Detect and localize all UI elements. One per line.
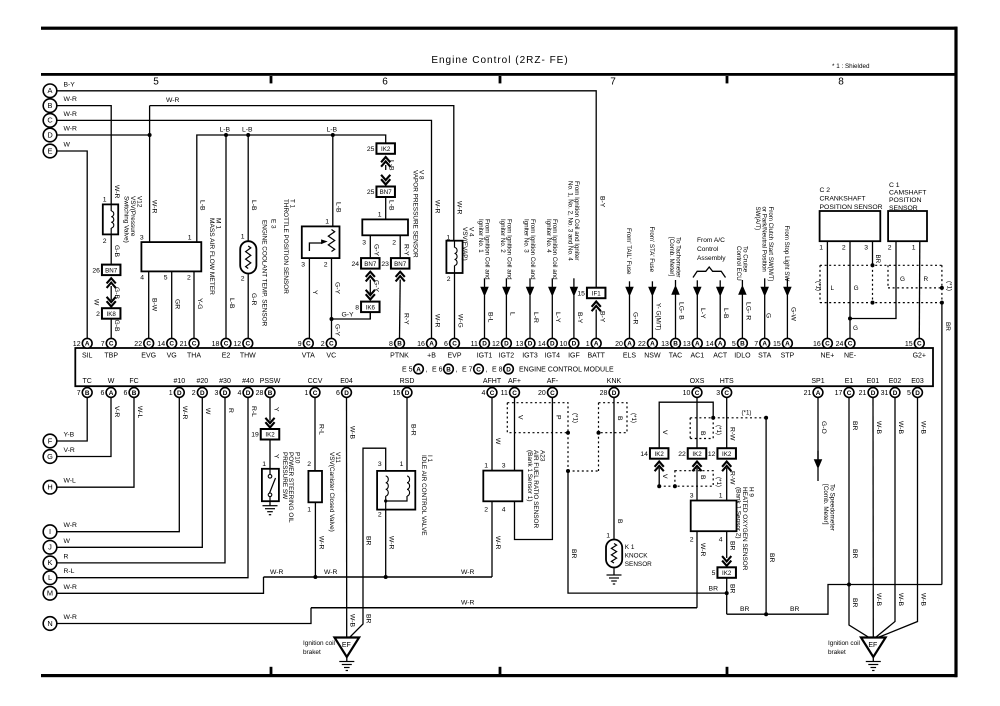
knock sensor K1 [606,540,622,568]
svg-text:G-Y: G-Y [333,324,340,337]
shield dashed line (*1) to BR drain right [690,417,766,419]
wire W row E to SIL [57,151,87,339]
svg-text:B: B [132,390,137,397]
svg-text:(*1): (*1) [630,413,637,423]
svg-text:(Bank 1 Sensor 2): (Bank 1 Sensor 2) [735,487,742,539]
svg-text:,: , [486,367,488,374]
svg-text:CRANKSHAFT: CRANKSHAFT [820,196,866,203]
svg-text:VAPOR PRESSURE SENSOR: VAPOR PRESSURE SENSOR [411,170,418,258]
svg-text:NE-: NE- [844,353,857,360]
svg-text:W-R: W-R [64,126,78,133]
throttle position sensor T1 [332,135,334,226]
svg-text:B: B [268,390,273,397]
svg-text:(*1): (*1) [946,281,953,291]
svg-text:L-B: L-B [327,127,338,134]
svg-text:#20: #20 [196,378,208,385]
svg-text:28: 28 [600,390,608,397]
svg-text:IDLO: IDLO [734,353,751,360]
svg-text:25: 25 [367,146,375,153]
svg-text:C: C [313,390,318,397]
chevrons into IK6 8 [366,294,375,299]
chevrons under BN7 26 [107,278,116,283]
svg-text:L-B: L-B [388,200,395,211]
svg-text:10: 10 [560,341,568,348]
svg-text:G2+: G2+ [913,353,926,360]
svg-text:3: 3 [301,262,305,269]
svg-text:V-R: V-R [64,447,75,454]
svg-text:Switching Valve): Switching Valve) [123,196,130,243]
wire BR H9 pin4 to IK2 5 [726,531,728,558]
svg-text:THROTTLE POSITION SENSOR: THROTTLE POSITION SENSOR [282,199,289,294]
svg-text:VSV(Canister Closed Valve): VSV(Canister Closed Valve) [328,452,335,532]
svg-text:IDLE AIR CONTROL VALVE: IDLE AIR CONTROL VALVE [420,455,427,536]
svg-text:R: R [227,408,234,413]
svg-text:1: 1 [169,390,173,397]
svg-text:2: 2 [392,240,396,247]
svg-text:C: C [917,341,922,348]
svg-text:B-L: B-L [486,312,493,323]
svg-text:23: 23 [381,261,389,268]
wire L-Y to AC1 [696,280,698,287]
svg-text:3: 3 [378,461,382,468]
svg-text:C: C [109,341,114,348]
svg-text:LG- R: LG- R [744,302,751,320]
wire G C1 pin2 joins NE- [850,241,896,318]
svg-text:17: 17 [835,390,843,397]
wire V-R G to W [57,398,111,457]
svg-text:D: D [612,390,617,397]
wire W-R row C to +B [57,120,432,338]
svg-text:E02: E02 [889,378,902,385]
svg-text:11: 11 [471,341,478,348]
svg-text:W: W [93,299,100,306]
svg-text:F: F [48,436,53,445]
svg-text:C 2: C 2 [820,187,831,194]
svg-text:1: 1 [378,212,382,219]
wire Y IK2 to P10 [269,440,271,469]
frame: bottom border [41,674,957,677]
wire W-R V11 to bus [314,502,316,577]
svg-text:AC1: AC1 [690,353,704,360]
svg-text:BN7: BN7 [394,261,407,268]
svg-text:Y- G(M/T): Y- G(M/T) [654,303,661,330]
svg-text:1: 1 [484,463,488,470]
svg-text:CCV: CCV [308,378,323,385]
wire R-L L to #40 [57,398,248,578]
wire W-R I to #10 [57,398,180,532]
svg-text:L-Y: L-Y [554,312,561,323]
svg-text:L-B: L-B [242,127,253,134]
svg-text:IGT4: IGT4 [545,353,561,360]
svg-text:C: C [695,390,700,397]
svg-text:braket: braket [303,649,321,656]
wire BR E1 to ground bus [848,398,850,585]
svg-text:15: 15 [577,290,585,297]
svg-text:C: C [490,390,495,397]
svg-text:VSV(EVAP): VSV(EVAP) [461,227,468,261]
svg-text:Y-B: Y-B [64,432,75,439]
wire B-Y IF1 to BATT [595,310,597,339]
svg-text:From Stop Light SW: From Stop Light SW [783,226,790,282]
svg-text:[Comb. Meter]: [Comb. Meter] [822,484,829,525]
wire G-B to IK8 [110,286,112,300]
wire W-R H9 pin2 to lower bus [696,531,698,608]
svg-text:R-L: R-L [250,406,257,417]
svg-text:W: W [494,438,501,445]
svg-text:B: B [48,101,53,110]
svg-text:B: B [85,390,90,397]
svg-text:2: 2 [324,262,328,269]
svg-text:E 3: E 3 [270,219,277,229]
svg-text:C: C [825,341,830,348]
svg-text:5: 5 [712,570,716,577]
svg-text:C 1: C 1 [889,182,900,189]
svg-text:A: A [762,341,767,348]
ECM box (Engine Control Module) [75,348,933,386]
svg-text:24: 24 [836,341,844,348]
shield dashed drain to BR [567,433,569,471]
svg-text:E 8: E 8 [492,367,503,374]
svg-text:SIL: SIL [82,353,93,360]
heated oxygen sensor H9 box [691,501,737,532]
svg-text:C: C [550,390,555,397]
chevrons into IK8 [107,301,116,306]
svg-text:R: R [924,276,929,283]
air fuel ratio sensor A23 box [483,471,522,502]
svg-text:IK2: IK2 [655,451,665,458]
svg-text:MASS AIR FLOW METER: MASS AIR FLOW METER [208,218,215,295]
chevrons under BN7 24 [366,272,375,277]
chevrons under IK2 25 [381,157,390,162]
svg-text:BR: BR [729,541,736,551]
svg-text:R-W: R-W [729,471,736,485]
svg-text:C: C [476,366,481,373]
svg-text:7: 7 [101,341,105,348]
svg-text:W-B: W-B [875,421,882,435]
wire MAF pin4 B-W to EVG [148,271,150,338]
svg-text:19: 19 [251,432,259,439]
svg-text:W-R: W-R [64,584,78,591]
svg-text:W-R: W-R [64,96,78,103]
svg-text:12: 12 [708,451,716,458]
svg-text:L: L [831,285,835,292]
svg-text:KNK: KNK [607,378,622,385]
wire BR shield drain down right side [941,303,943,585]
svg-text:C: C [329,341,334,348]
svg-text:RSD: RSD [400,378,415,385]
svg-text:L-R: L-R [532,312,539,323]
svg-text:2: 2 [187,275,191,282]
svg-text:L-B: L-B [220,127,231,134]
wire MAF pin5 GR to VG [171,271,173,338]
wire W-R N joins lower W-R bus [57,608,311,624]
svg-text:5: 5 [732,341,736,348]
svg-text:G-Y: G-Y [342,312,355,319]
svg-text:D: D [405,390,410,397]
svg-text:E2: E2 [222,353,231,360]
svg-text:L-B: L-B [388,160,395,171]
svg-text:BR: BR [740,606,750,613]
svg-text:D: D [871,390,876,397]
svg-text:8: 8 [838,77,844,88]
svg-text:R-L: R-L [64,568,75,575]
svg-text:B-R: B-R [409,424,416,436]
svg-text:R-L: R-L [317,424,324,435]
svg-text:EVG: EVG [141,353,156,360]
svg-text:21: 21 [180,341,188,348]
svg-text:Y: Y [273,407,280,412]
svg-text:15: 15 [773,341,781,348]
wire V shield stub below IK2 14 [658,468,660,486]
svg-text:3: 3 [502,463,506,470]
svg-text:AFHT: AFHT [483,378,502,385]
wire L-B net from MAF pin1 across top [197,135,386,242]
svg-text:EF: EF [342,642,351,649]
svg-text:E 5: E 5 [402,367,413,374]
svg-text:B-Y: B-Y [64,81,76,88]
svg-text:G-R: G-R [250,293,257,306]
wire W-R row B to V12 valve [57,106,111,205]
svg-text:9: 9 [298,341,302,348]
svg-text:R-Y: R-Y [402,313,409,325]
svg-text:11: 11 [501,390,508,397]
svg-text:W-B: W-B [897,421,904,435]
wire G-Y V8 pin3 to BN7 24 [369,235,371,258]
svg-text:R-W: R-W [729,427,736,441]
svg-text:IGT2: IGT2 [499,353,515,360]
wire BR dashed-drain down to BR bus [765,418,767,614]
svg-text:OXS: OXS [690,378,705,385]
svg-text:L-B: L-B [228,298,235,309]
svg-text:2: 2 [447,276,451,283]
W-R bus lower (N to H9 pin2) [311,607,697,609]
svg-text:1: 1 [307,507,311,514]
wire BR E1 branch into right EF ground [849,585,869,638]
svg-text:#40: #40 [242,378,254,385]
svg-text:FC: FC [129,378,138,385]
svg-text:21: 21 [804,390,812,397]
wire R-W HTS to IK2 12 [726,398,728,448]
wire W-R I1 pin2 to bus [385,510,387,577]
svg-text:B: B [446,366,451,373]
svg-text:Control ECU: Control ECU [735,246,742,281]
svg-text:V: V [516,415,523,420]
svg-text:G-R: G-R [631,312,638,325]
svg-text:6: 6 [336,390,340,397]
svg-text:L-B: L-B [722,308,729,319]
svg-text:W-R: W-R [324,569,338,576]
svg-text:2: 2 [378,512,382,519]
svg-text:B: B [616,416,623,421]
VSV V11 canister closed valve [308,471,322,502]
svg-text:12: 12 [492,341,500,348]
wire R-W IK2 12 to H9 pin1 [726,468,728,501]
svg-text:W-L: W-L [136,406,143,419]
svg-text:E03: E03 [911,378,924,385]
svg-text:PRESSURE SW: PRESSURE SW [281,452,288,500]
svg-text:8: 8 [389,341,393,348]
svg-text:C: C [847,390,852,397]
svg-text:W: W [204,408,211,415]
svg-text:4: 4 [502,507,506,514]
svg-text:D: D [177,390,182,397]
svg-text:B-Y: B-Y [599,311,606,323]
chevrons under IF1 [592,302,601,307]
svg-text:R: R [64,553,69,560]
svg-text:SP1: SP1 [811,378,824,385]
svg-text:G-O: G-O [820,421,827,434]
svg-text:E: E [48,146,53,155]
T1 wiper arrow [309,243,322,251]
svg-text:16: 16 [417,341,425,348]
wire W J to #20 [57,398,203,548]
ground EF left (ignition coil bracket) [335,638,360,658]
svg-text:EVP: EVP [447,353,461,360]
K1 ground [613,571,615,576]
svg-text:A: A [594,341,599,348]
wire B-Y row A to IF1/BATT [57,91,596,288]
svg-text:Ignition coil: Ignition coil [303,640,335,647]
svg-text:B: B [699,475,706,480]
svg-text:#30: #30 [219,378,231,385]
svg-text:TBP: TBP [104,353,118,360]
svg-text:13: 13 [661,341,669,348]
VSV V4 EVAP box [446,241,462,273]
svg-text:BR: BR [851,421,858,431]
svg-text:IK2: IK2 [381,146,391,153]
svg-text:1: 1 [586,341,590,348]
svg-text:3: 3 [716,390,720,397]
svg-text:22: 22 [678,451,686,458]
svg-text:TC: TC [83,378,92,385]
wire Y PSSW to IK2 19 [269,398,271,421]
wire W-R row D junction net to MAF pin3 and VSV EVAP [57,134,150,136]
svg-text:4: 4 [140,275,144,282]
shield dashed box below (B wire to H9) [659,485,675,487]
svg-text:1: 1 [262,461,266,468]
svg-text:Igniter No. 1: Igniter No. 1 [477,219,484,253]
svg-text:E04: E04 [340,378,353,385]
svg-text:+B: +B [427,353,436,360]
svg-text:2: 2 [241,276,245,283]
W-R bus upper (M to A23 pin2) [264,576,493,578]
svg-text:W-R: W-R [434,200,441,214]
svg-text:W-B: W-B [875,593,882,607]
svg-text:Y: Y [311,290,318,295]
svg-text:2: 2 [690,537,694,544]
svg-text:V: V [661,430,668,435]
wire B IK2 22 to H9 pin3 [696,468,698,501]
svg-text:BATT: BATT [588,353,606,360]
svg-text:(*1): (*1) [715,425,722,435]
svg-text:A: A [48,86,53,95]
svg-text:braket: braket [828,649,846,656]
svg-text:BR: BR [851,549,858,559]
svg-text:C: C [245,341,250,348]
svg-text:2: 2 [484,507,488,514]
svg-text:LG- B: LG- B [677,302,684,320]
svg-text:1: 1 [241,234,245,241]
svg-text:C: C [146,341,151,348]
VSV V12 Pressure Switching Valve box [103,204,118,234]
svg-text:1: 1 [719,493,723,500]
wire W-B E02 to right EF ground [876,398,896,638]
wire G-B V12 to BN7 [110,234,112,264]
wire R-L CCV to V11 [314,398,316,471]
frame: column ruler line [41,73,957,76]
svg-text:2: 2 [888,245,892,252]
svg-text:ENGINE CONTROL MODULE: ENGINE CONTROL MODULE [519,367,614,374]
svg-text:W-R: W-R [434,314,441,328]
svg-text:W-B: W-B [919,421,926,435]
svg-text:W-R: W-R [317,536,324,550]
svg-text:L-Y: L-Y [699,308,706,319]
svg-text:Engine Control (2RZ- FE): Engine Control (2RZ- FE) [431,55,568,66]
svg-text:C: C [169,341,174,348]
svg-text:POSITION: POSITION [889,197,922,204]
svg-text:(Bank 1 Sensor 1): (Bank 1 Sensor 1) [526,450,533,502]
svg-text:W-R: W-R [64,614,78,621]
wire L-B to ACT [719,280,721,287]
chevrons into BN7 25 [381,179,390,184]
svg-text:G: G [765,313,772,318]
svg-text:2: 2 [192,390,196,397]
svg-text:14: 14 [640,451,648,458]
wire MAF pin2 Y-G to THA [193,271,195,338]
svg-text:W-R: W-R [64,522,78,529]
svg-text:G-B: G-B [113,320,120,333]
svg-text:D: D [47,130,52,139]
svg-text:22: 22 [638,341,646,348]
idle air control valve I1 box [377,471,415,510]
svg-text:E1: E1 [845,378,854,385]
svg-text:A: A [650,341,655,348]
svg-text:8: 8 [355,304,359,311]
svg-text:W-R: W-R [494,536,501,550]
frame: right border [954,27,957,678]
chevrons under BN7 23 [396,272,405,277]
svg-text:D: D [893,390,898,397]
svg-text:VTA: VTA [302,353,315,360]
svg-text:5: 5 [153,77,159,88]
svg-text:W: W [108,378,115,385]
svg-text:D: D [550,341,555,348]
svg-text:10: 10 [683,390,691,397]
svg-text:From A/C: From A/C [697,237,725,244]
svg-text:BR: BR [709,586,719,593]
svg-text:Assembly: Assembly [697,255,726,262]
svg-text:C: C [724,390,729,397]
wire BR bus to right ground collector [727,585,942,615]
svg-text:2: 2 [103,238,107,245]
wire R-Y to PTNK [399,280,402,339]
svg-text:ELS: ELS [623,353,637,360]
svg-text:L-B: L-B [199,200,206,211]
wire BR IK2 5 down to BR bus [726,578,728,614]
svg-text:ACT: ACT [713,353,728,360]
svg-text:3: 3 [214,390,218,397]
wire BR C2 pin3 shield drain [872,241,874,265]
P10 ground [269,501,271,506]
svg-text:IK2: IK2 [265,432,275,439]
svg-text:6: 6 [382,77,388,88]
svg-text:14: 14 [157,341,165,348]
wire W-B E01 to right EF ground [872,398,874,638]
svg-text:L-B: L-B [250,200,257,211]
wire W-R M joins W-R bus [57,577,264,593]
svg-text:#10: #10 [173,378,185,385]
svg-text:PTNK: PTNK [390,353,409,360]
